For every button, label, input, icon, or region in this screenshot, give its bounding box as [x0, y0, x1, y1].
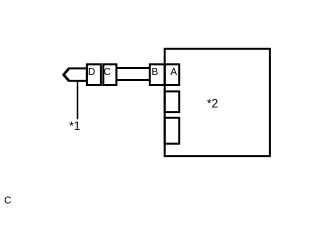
pin box 2 (unlabeled) — [165, 118, 180, 144]
wire (upper) between C and B — [116, 67, 149, 69]
svg-text:B: B — [151, 67, 158, 78]
svg-text:D: D — [88, 67, 95, 78]
connector terminal box B — [150, 64, 165, 85]
connector terminal box D — [87, 64, 101, 85]
svg-text:*2: *2 — [207, 96, 219, 110]
wire (lower) between C and B — [116, 79, 149, 81]
connector arrow head — [64, 68, 69, 81]
connector terminal box C — [103, 64, 116, 85]
svg-text:C: C — [4, 196, 11, 207]
ECU box *2 — [165, 49, 270, 156]
connector terminal box A — [165, 64, 180, 85]
connector arrow (wire-harness end) — [64, 68, 87, 81]
leader line for *1 — [77, 81, 79, 119]
svg-text:A: A — [170, 67, 177, 78]
pin box 1 (unlabeled) — [165, 91, 180, 112]
svg-text:C: C — [104, 67, 111, 78]
svg-text:*1: *1 — [69, 119, 81, 133]
